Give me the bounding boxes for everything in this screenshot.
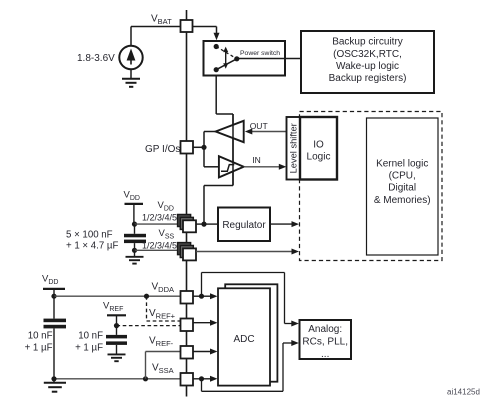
svg-text:Digital: Digital [388,183,416,194]
svg-text:IN: IN [252,155,260,165]
svg-text:RCs, PLL,: RCs, PLL, [302,337,348,348]
svg-text:OUT: OUT [250,121,268,131]
svg-text:Level shifter: Level shifter [288,123,298,173]
svg-text:5 × 100 nF: 5 × 100 nF [66,229,113,240]
svg-text:(OSC32K,RTC,: (OSC32K,RTC, [333,49,402,60]
svg-text:Wake-up logic: Wake-up logic [336,61,399,72]
svg-text:GP I/Os: GP I/Os [145,144,180,155]
svg-text:+ 1 × 4.7 µF: + 1 × 4.7 µF [66,241,119,252]
svg-text:+ 1 µF: + 1 µF [75,342,103,353]
svg-text:IO: IO [313,139,324,150]
svg-text:Analog:: Analog: [308,324,342,335]
svg-text:Backup circuitry: Backup circuitry [332,37,403,48]
svg-text:Backup registers): Backup registers) [329,73,407,84]
svg-text:1/2/3/4/5: 1/2/3/4/5 [142,213,177,223]
svg-text:1/2/3/4/5: 1/2/3/4/5 [142,241,177,251]
svg-text:& Memories): & Memories) [374,195,431,206]
svg-text:10 nF: 10 nF [28,330,53,341]
svg-text:1.8-3.6V: 1.8-3.6V [77,53,115,64]
svg-text:ai14125d: ai14125d [447,387,480,396]
svg-text:Power switch: Power switch [240,50,280,57]
svg-text:10 nF: 10 nF [78,330,103,341]
svg-text:Logic: Logic [307,151,331,162]
svg-text:ADC: ADC [233,334,254,345]
svg-text:Regulator: Regulator [222,220,266,231]
svg-text:...: ... [321,349,329,360]
svg-text:+ 1 µF: + 1 µF [25,342,53,353]
svg-text:Kernel logic: Kernel logic [376,159,428,170]
svg-text:(CPU,: (CPU, [389,171,416,182]
